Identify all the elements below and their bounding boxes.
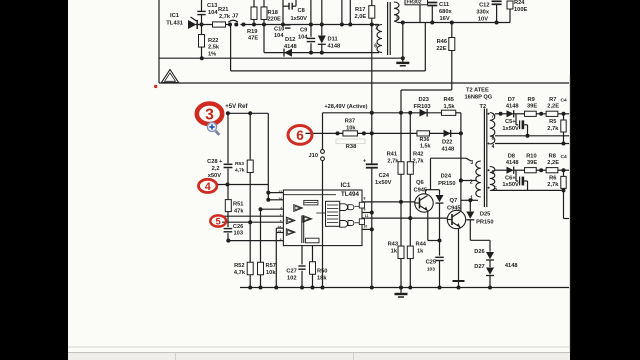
svg-text:R52: R52 <box>234 263 244 269</box>
svg-text:2,7k: 2,7k <box>413 158 425 164</box>
svg-text:11: 11 <box>365 214 369 218</box>
svg-text:R42: R42 <box>413 152 423 158</box>
svg-text:FR302: FR302 <box>407 0 422 6</box>
svg-text:220E: 220E <box>268 17 281 23</box>
svg-text:C27: C27 <box>286 269 296 275</box>
svg-text:C9: C9 <box>300 28 307 34</box>
svg-text:100E: 100E <box>514 7 527 13</box>
svg-text:D22: D22 <box>442 140 452 146</box>
svg-text:4148: 4148 <box>328 44 341 50</box>
svg-text:D24: D24 <box>441 174 452 180</box>
svg-text:2: 2 <box>470 179 473 185</box>
svg-text:2,2E: 2,2E <box>547 160 559 166</box>
svg-text:x50V: x50V <box>208 173 221 179</box>
svg-text:39E: 39E <box>527 160 537 166</box>
svg-text:6: 6 <box>492 170 495 176</box>
svg-text:4: 4 <box>492 144 495 150</box>
svg-text:C25: C25 <box>426 260 436 266</box>
svg-text:R51: R51 <box>233 202 243 208</box>
svg-text:4148: 4148 <box>505 263 518 269</box>
svg-text:C28 +: C28 + <box>207 159 223 165</box>
svg-text:C26: C26 <box>233 224 243 230</box>
svg-text:PR150: PR150 <box>476 219 493 225</box>
svg-text:104: 104 <box>274 33 284 39</box>
svg-text:1: 1 <box>280 214 282 218</box>
svg-text:J10: J10 <box>309 153 319 159</box>
svg-text:TL494: TL494 <box>341 191 359 198</box>
svg-text:C10: C10 <box>274 27 284 33</box>
svg-text:2,7k: 2,7k <box>219 14 231 20</box>
svg-text:3: 3 <box>396 16 399 22</box>
svg-text:6: 6 <box>374 44 377 50</box>
svg-text:4148: 4148 <box>506 104 519 110</box>
svg-text:1x50V: 1x50V <box>291 16 308 22</box>
svg-text:4148: 4148 <box>506 160 519 166</box>
svg-text:C12: C12 <box>479 3 489 9</box>
svg-text:4148: 4148 <box>284 44 297 50</box>
svg-text:103: 103 <box>427 266 435 272</box>
svg-text:4148: 4148 <box>442 147 455 153</box>
svg-text:4: 4 <box>205 181 211 193</box>
svg-text:2,7k: 2,7k <box>547 182 559 188</box>
svg-text:104: 104 <box>298 35 308 41</box>
svg-text:D27: D27 <box>474 264 484 270</box>
svg-text:2,5k: 2,5k <box>208 45 220 51</box>
svg-text:C6+: C6+ <box>505 176 516 182</box>
svg-text:R36: R36 <box>420 137 430 143</box>
svg-text:10V: 10V <box>478 16 488 22</box>
svg-text:1,5k: 1,5k <box>420 144 431 150</box>
svg-text:9: 9 <box>364 208 366 212</box>
svg-text:C4: C4 <box>561 98 568 104</box>
svg-text:2,0E: 2,0E <box>355 14 367 20</box>
svg-text:R22: R22 <box>208 38 218 44</box>
svg-text:1x50V: 1x50V <box>502 182 519 188</box>
svg-text:R24: R24 <box>514 0 525 6</box>
svg-text:104: 104 <box>208 10 218 16</box>
svg-text:Q7: Q7 <box>450 198 458 204</box>
svg-text:C8: C8 <box>298 8 305 14</box>
svg-text:FR103: FR103 <box>414 104 431 110</box>
svg-text:8: 8 <box>492 135 495 141</box>
svg-text:R44: R44 <box>416 242 427 248</box>
svg-text:680x: 680x <box>439 9 452 15</box>
svg-text:15: 15 <box>278 230 282 234</box>
svg-text:330x: 330x <box>476 10 489 16</box>
svg-text:1%: 1% <box>208 51 216 57</box>
svg-text:7: 7 <box>492 113 495 119</box>
svg-text:+28,49V (Active): +28,49V (Active) <box>324 104 367 110</box>
svg-text:1k: 1k <box>391 249 398 255</box>
svg-text:10k: 10k <box>266 270 276 276</box>
svg-text:R10: R10 <box>526 153 536 159</box>
svg-text:16N8P QG: 16N8P QG <box>465 94 493 100</box>
svg-text:R43: R43 <box>388 242 398 248</box>
svg-text:D25: D25 <box>480 211 490 217</box>
svg-text:R8: R8 <box>549 153 556 159</box>
svg-text:13: 13 <box>278 190 282 194</box>
svg-text:4,7k: 4,7k <box>235 168 245 174</box>
svg-text:R46: R46 <box>437 39 447 45</box>
svg-text:R19: R19 <box>247 29 257 35</box>
svg-text:47k: 47k <box>234 208 244 214</box>
svg-text:5: 5 <box>494 186 497 192</box>
svg-text:TL431: TL431 <box>166 21 184 27</box>
svg-text:4,7k: 4,7k <box>234 270 246 276</box>
svg-text:R18: R18 <box>268 10 278 16</box>
svg-text:D23: D23 <box>419 97 429 103</box>
svg-text:102: 102 <box>287 276 297 282</box>
svg-text:5: 5 <box>216 216 222 227</box>
svg-text:R9: R9 <box>528 97 535 103</box>
svg-text:10k: 10k <box>346 125 356 131</box>
svg-text:16V: 16V <box>440 16 450 22</box>
svg-text:103: 103 <box>234 231 244 237</box>
svg-text:7: 7 <box>375 26 378 32</box>
svg-text:4: 4 <box>280 207 282 211</box>
svg-text:R53: R53 <box>235 161 244 167</box>
svg-text:3: 3 <box>280 238 282 242</box>
svg-text:8: 8 <box>364 196 366 200</box>
svg-text:22E: 22E <box>436 46 446 52</box>
svg-text:2,2E: 2,2E <box>547 104 559 110</box>
svg-text:R57: R57 <box>266 263 276 269</box>
svg-text:+5V Ref: +5V Ref <box>225 104 248 110</box>
svg-text:R38: R38 <box>346 144 356 150</box>
svg-text:R21: R21 <box>218 7 228 13</box>
svg-text:R17: R17 <box>355 7 365 13</box>
svg-text:6: 6 <box>296 128 304 143</box>
svg-text:IC1: IC1 <box>170 13 180 19</box>
svg-text:3: 3 <box>470 160 473 166</box>
svg-text:10: 10 <box>364 225 368 229</box>
svg-text:3: 3 <box>205 106 214 123</box>
svg-text:+: + <box>363 159 366 165</box>
svg-text:1,5k: 1,5k <box>444 104 456 110</box>
svg-text:1x50V: 1x50V <box>375 180 392 186</box>
svg-text:D26: D26 <box>474 249 484 255</box>
svg-text:T2: T2 <box>480 104 487 110</box>
svg-text:D12: D12 <box>285 37 295 43</box>
svg-text:D7: D7 <box>508 97 515 103</box>
svg-text:R37: R37 <box>345 119 355 125</box>
svg-text:2,7k: 2,7k <box>387 158 399 164</box>
svg-text:R6: R6 <box>549 176 556 182</box>
svg-text:D8: D8 <box>508 153 515 159</box>
svg-text:C13: C13 <box>207 3 217 9</box>
svg-text:1: 1 <box>470 196 473 202</box>
svg-text:R7: R7 <box>549 97 556 103</box>
svg-text:C5+: C5+ <box>505 119 516 125</box>
svg-text:T2 ATEE: T2 ATEE <box>466 88 489 94</box>
svg-text:39E: 39E <box>527 104 537 110</box>
svg-text:1x50V: 1x50V <box>502 126 519 132</box>
svg-text:1k: 1k <box>417 249 424 255</box>
svg-text:C11: C11 <box>439 2 449 8</box>
svg-text:R5: R5 <box>549 119 556 125</box>
svg-text:C24: C24 <box>379 173 390 179</box>
svg-text:2,7k: 2,7k <box>547 126 559 132</box>
svg-text:47E: 47E <box>248 36 258 42</box>
svg-text:C4: C4 <box>561 154 568 160</box>
svg-text:PR150: PR150 <box>438 181 455 187</box>
svg-text:J7: J7 <box>232 14 238 20</box>
svg-text:Q6: Q6 <box>416 180 425 186</box>
svg-text:R45: R45 <box>444 97 454 103</box>
svg-text:R41: R41 <box>387 152 397 158</box>
svg-text:D11: D11 <box>328 37 338 43</box>
svg-text:IC1: IC1 <box>341 182 351 189</box>
svg-text:2: 2 <box>280 220 282 224</box>
svg-text:2,2: 2,2 <box>212 166 220 172</box>
svg-text:16: 16 <box>278 226 282 230</box>
svg-text:14: 14 <box>278 197 282 201</box>
